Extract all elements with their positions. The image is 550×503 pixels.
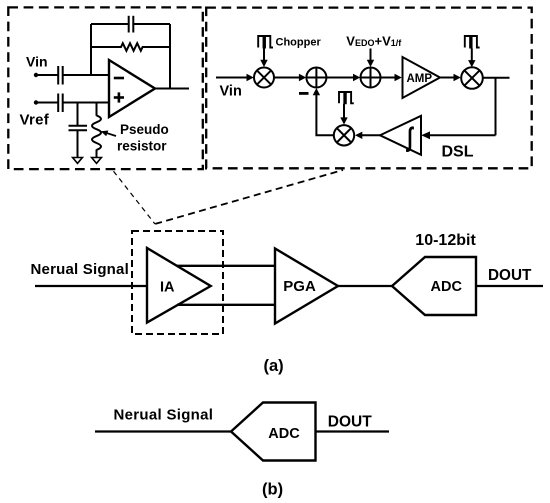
node Vin: [34, 73, 38, 77]
wire differential top: [177, 265, 276, 267]
chopper clock symbol 2: [465, 36, 480, 48]
svg-text:PGA: PGA: [283, 278, 316, 295]
svg-text:Nerual Signal: Nerual Signal: [114, 407, 214, 424]
wire drop to ground capacitor: [77, 103, 79, 126]
ground symbol (under Rp): [92, 158, 102, 164]
wire C2 to op-amp + input: [63, 102, 109, 104]
op-amp minus sign: [114, 77, 124, 80]
wire feedback right vertical to output: [169, 24, 171, 89]
svg-text:(b): (b): [262, 481, 283, 499]
ADC block (a): [392, 257, 476, 315]
capacitor C2 (Vref series): [57, 94, 59, 113]
wire op-amp output: [155, 88, 189, 90]
capacitor C1 (Vin series): [57, 66, 59, 85]
node Vref: [34, 100, 38, 104]
svg-text:DOUT: DOUT: [488, 267, 532, 284]
op-amp U1: [109, 60, 155, 117]
wire feedback top branch left: [91, 23, 129, 25]
ground symbol (under C3): [73, 158, 83, 164]
wire PGA to ADC: [338, 285, 392, 287]
summer S1: [306, 68, 326, 88]
arrow clock1 into mixer M1: [263, 49, 265, 63]
svg-text:resistor: resistor: [117, 139, 167, 154]
callout dashed line from left inset: [114, 171, 156, 224]
amplifier IA: [147, 248, 211, 323]
chopper clock symbol 1: [258, 36, 273, 48]
wire M3 to summer S1 (feedback up) with arrow: [316, 93, 334, 136]
op-amp plus sign: [114, 96, 124, 99]
wire S2 to AMP with arrow: [381, 77, 398, 79]
wire drop to pseudo resistor: [96, 103, 98, 116]
wire integrator to mixer M3 with arrow: [359, 134, 381, 136]
wire feedback top branch right: [133, 23, 170, 25]
svg-text:Pseudo: Pseudo: [120, 122, 169, 137]
dashed box around IA: [132, 231, 223, 334]
svg-text:(a): (a): [264, 357, 284, 375]
mixer M3: [334, 125, 354, 145]
amplifier AMP: [403, 57, 441, 98]
wire feedback to integrator with arrow: [426, 134, 496, 136]
wire ADC output (a): [476, 285, 543, 287]
svg-text:ADC: ADC: [268, 426, 300, 442]
wire S1 to summer S2 with arrow: [327, 77, 356, 79]
svg-text:IA: IA: [160, 280, 175, 296]
svg-text:Vin: Vin: [220, 84, 242, 100]
arrow clock3 into mixer M3: [343, 104, 345, 120]
svg-text:Chopper: Chopper: [276, 36, 322, 48]
wire AMP to mixer M2 with arrow: [440, 77, 457, 79]
wire input (b): [95, 430, 231, 432]
wire ADC output (b): [316, 430, 390, 432]
mixer M1: [254, 68, 274, 88]
dashed callout box (left inset border): [8, 7, 203, 169]
resistor Rf (feedback): [91, 43, 170, 51]
capacitor Cf (feedback): [128, 16, 130, 33]
svg-text:Vin: Vin: [26, 54, 48, 70]
svg-text:10-12bit: 10-12bit: [415, 232, 476, 249]
chopper clock symbol 3: [339, 92, 354, 103]
wire Vref to C2: [36, 102, 58, 104]
summer S2: [361, 68, 381, 88]
capacitor C3 (to ground): [69, 125, 88, 127]
arrow clock2 into mixer M2: [471, 49, 473, 63]
minus sign at summer S1: [299, 92, 309, 95]
wire Vin to C1: [36, 74, 58, 76]
wire input (a): [35, 285, 147, 287]
wire M1 to summer S1 with arrow: [274, 77, 303, 79]
wire C3 to ground: [77, 130, 79, 157]
callout dashed line from right inset: [155, 170, 343, 224]
annotation arrow to pseudo resistor: [106, 133, 117, 136]
svg-text:Vref: Vref: [20, 111, 50, 128]
integrator INT: [380, 116, 421, 155]
mixer M2: [461, 67, 483, 89]
ADC block (b): [231, 403, 316, 461]
arrow VEDO into summer S2: [370, 49, 372, 63]
amplifier PGA: [275, 249, 338, 324]
wire Rp to ground: [96, 150, 98, 158]
wire C1 to op-amp - input: [63, 74, 109, 76]
svg-text:DSL: DSL: [442, 144, 474, 161]
svg-text:ADC: ADC: [431, 279, 463, 295]
wire M2 output: [483, 77, 510, 79]
svg-text:AMP: AMP: [407, 73, 433, 85]
pseudo resistor Rp (wavy): [92, 115, 101, 149]
dashed callout box (right inset border): [206, 8, 532, 169]
wire feedback tap vertical: [495, 78, 497, 136]
svg-text:Nerual Signal: Nerual Signal: [31, 261, 129, 278]
wire differential bottom: [177, 304, 275, 306]
svg-text:DOUT: DOUT: [328, 413, 372, 430]
wire Vin input with arrow: [216, 77, 249, 79]
wire feedback left vertical: [90, 24, 92, 75]
